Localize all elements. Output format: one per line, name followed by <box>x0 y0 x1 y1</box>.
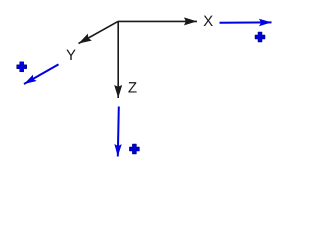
wire X axis (black) <box>118 20 197 22</box>
node X label <box>204 16 213 26</box>
wire X positive direction (blue) <box>220 21 272 23</box>
node plus sign Z <box>129 144 139 154</box>
node Y label <box>66 50 75 60</box>
node Z label <box>128 82 136 92</box>
node plus sign X <box>255 32 265 42</box>
wire Y axis (black) <box>79 21 119 43</box>
wire Z axis (black) <box>117 21 119 98</box>
wire Z positive direction (blue) <box>118 107 119 157</box>
node plus sign Y <box>17 62 27 72</box>
wire Y positive direction (blue) <box>24 64 59 84</box>
